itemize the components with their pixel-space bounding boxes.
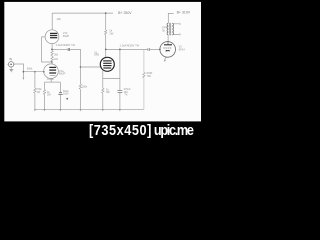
svg-text:1W: 1W [109,31,113,35]
svg-text:TK: TK [124,94,128,97]
svg-text:3W: 3W [147,75,151,78]
svg-text:2W: 2W [47,94,51,97]
svg-text:100uF: 100uF [47,78,55,81]
svg-text:6N2: 6N2 [94,53,99,57]
svg-text:1.0uF/630V TH: 1.0uF/630V TH [55,43,75,47]
svg-text:B+ 310V: B+ 310V [177,11,191,15]
svg-text:1W: 1W [37,91,41,94]
svg-text:6N2P: 6N2P [59,72,66,76]
svg-text:6P14: 6P14 [179,47,186,51]
svg-text:160V: 160V [63,93,69,96]
svg-text:6N2P: 6N2P [63,34,70,38]
svg-text:IN: IN [9,57,12,61]
svg-text:1.0uF/630V TH: 1.0uF/630V TH [119,43,139,47]
svg-text:B+ 250V: B+ 250V [118,11,132,15]
svg-text:360k: 360k [27,68,33,71]
svg-text:150k: 150k [82,86,88,89]
svg-text:3W: 3W [106,91,110,94]
svg-text:10k: 10k [57,17,62,21]
